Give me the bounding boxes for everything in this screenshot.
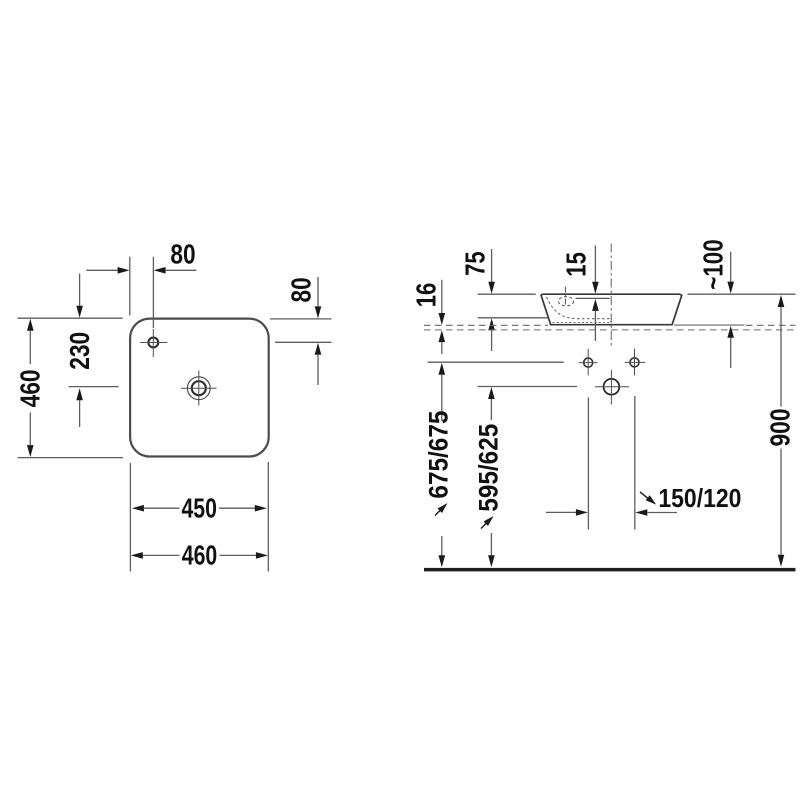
dimension 595/625 [474,387,504,567]
svg-text:595/625: 595/625 [474,424,504,512]
svg-text:230: 230 [64,332,95,370]
dimension 900 [765,295,796,567]
faucet hole dashed (section) [558,287,573,307]
drain hole (top view) [181,371,217,406]
basin top view outline [130,319,269,457]
svg-text:460: 460 [182,540,218,571]
svg-text:75: 75 [460,251,491,276]
faucet hole (top view) [140,329,167,357]
inner rim line (15 ref) [576,297,610,299]
dotted bowl profile [547,297,612,323]
svg-text:450: 450 [181,493,217,524]
ext line counter right (for ~100) [674,324,745,326]
svg-text:80: 80 [285,277,316,302]
dimension 450 (bottom) [130,462,268,572]
svg-text:675/675: 675/675 [423,411,453,499]
mounting hole left (section) [579,349,598,375]
basin center line [610,244,612,348]
dimension 80 (top, faucet offset) [86,238,196,328]
dotted bottom texture [553,322,612,324]
drain hole (section) [595,370,629,405]
dimension 15 [560,246,598,342]
floor line [424,568,796,572]
ext line mounting-hole level [428,361,564,363]
dimension 230 [64,274,119,428]
svg-text:80: 80 [170,238,195,269]
dimension 80 (right side vertical) [270,277,332,385]
mounting hole right (section) [625,349,645,375]
dimension ~100 [698,239,735,368]
dimension 16 [411,280,446,354]
ext line drain level [478,386,578,388]
svg-text:~100: ~100 [698,239,729,290]
countertop dashed lines [424,324,548,326]
dimension 460 (left vertical) [15,318,123,457]
dimension 150/120 [546,396,741,530]
svg-text:460: 460 [15,369,46,407]
svg-text:15: 15 [560,252,591,277]
dimension 675/675 [423,363,453,568]
svg-text:150/120: 150/120 [658,483,741,513]
svg-text:16: 16 [411,283,442,308]
ext line top edge right (for ~100 and 900) [688,293,796,295]
svg-text:900: 900 [765,409,796,447]
dimension 75 [460,249,549,351]
basin section outline [541,294,682,325]
dimension 460 (bottom) [131,540,268,571]
